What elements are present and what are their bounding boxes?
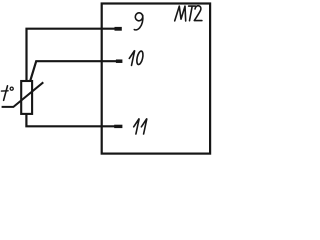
pin 10 stub: [116, 59, 123, 63]
pin label 11: [134, 119, 147, 135]
thermistor RK body: [21, 81, 32, 114]
pin label 10: [129, 50, 144, 65]
wire pin 9 to thermistor top: [27, 29, 116, 81]
label t°: [1, 86, 13, 101]
wire pin 11 to thermistor bottom: [26, 114, 114, 126]
device label MT2: [175, 6, 202, 21]
pin 11 stub: [114, 125, 122, 128]
relay box MT2: [102, 4, 210, 154]
pin label 9: [134, 12, 143, 30]
wire pin 10 to thermistor top: [30, 61, 116, 80]
thermistor diagonal stroke with foot: [2, 82, 44, 107]
pin 9 stub: [115, 27, 122, 31]
